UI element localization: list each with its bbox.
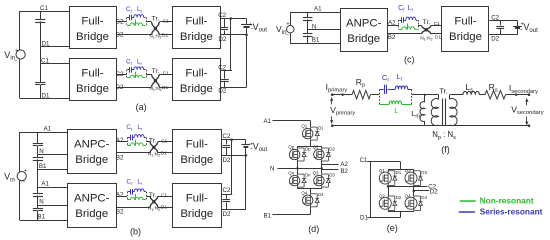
source Vin circle b xyxy=(17,172,26,181)
wire B2 lower c xyxy=(387,33,421,35)
svg-text:B1: B1 xyxy=(37,213,45,220)
svg-text:−: − xyxy=(250,146,254,152)
inductor L (non-resonant) xyxy=(127,25,130,27)
transformer Tr c xyxy=(422,26,431,34)
svg-text:D2: D2 xyxy=(218,88,226,95)
wire drain feed bar e xyxy=(388,169,414,171)
block Full-Bridge c right xyxy=(442,7,489,52)
svg-text:Dp: Dp xyxy=(305,146,311,151)
wire B1 d xyxy=(273,214,311,216)
secondary terminal dot top xyxy=(528,93,531,96)
svg-text:Full-: Full- xyxy=(454,16,476,28)
capacitor C1 upper (a) xyxy=(35,19,45,21)
svg-text:Series-resonant: Series-resonant xyxy=(480,206,543,216)
legend line series-resonant xyxy=(459,211,475,213)
svg-text:(f): (f) xyxy=(441,144,450,154)
wire primary top 3 xyxy=(412,94,439,96)
capacitor output xyxy=(226,140,228,145)
svg-text:Bridge: Bridge xyxy=(76,31,109,43)
transistor Q1 e xyxy=(379,172,391,184)
wire tank to transformer xyxy=(146,196,150,198)
block ANPC-Bridge c xyxy=(341,9,388,52)
svg-text:Q2: Q2 xyxy=(379,193,385,198)
transistor Q3 d xyxy=(314,175,324,185)
svg-text:B2: B2 xyxy=(116,154,124,161)
wire bottom rail a xyxy=(20,98,69,100)
node right tank junction xyxy=(146,138,148,146)
capacitor Cr (series-resonant) xyxy=(128,191,131,193)
inductor Lr (series-resonant) xyxy=(132,191,134,193)
wire bottom rail f xyxy=(332,125,529,127)
wire lower interconnect xyxy=(116,152,149,154)
wire output bottom xyxy=(222,209,233,211)
svg-text:B2: B2 xyxy=(388,34,396,41)
capacitor input c lower xyxy=(303,33,312,35)
svg-text:Q2: Q2 xyxy=(313,145,319,150)
svg-text:Q4: Q4 xyxy=(301,190,307,195)
wire output bottom xyxy=(220,87,232,89)
svg-text:+: + xyxy=(24,168,27,174)
wire tank to transformer c xyxy=(418,25,421,27)
svg-text:Bridge: Bridge xyxy=(75,208,108,220)
svg-text:A1: A1 xyxy=(41,181,49,188)
wire C1 to right box xyxy=(159,74,172,76)
node right tank junction xyxy=(146,70,148,78)
svg-text:Bridge: Bridge xyxy=(76,83,109,95)
transformer Tr small xyxy=(150,142,158,153)
wire Q4 to B1 d xyxy=(310,207,312,215)
arrow Isecondary xyxy=(508,94,519,96)
tank f right node xyxy=(411,89,413,104)
wire rail D1 upper (a) xyxy=(40,46,69,48)
wire A2 to tank c xyxy=(387,25,398,27)
transformer Tr small xyxy=(150,196,158,207)
wire parallel link C2-C2 b xyxy=(231,140,233,194)
junction dot a C2 xyxy=(230,17,233,20)
wire D1 to right box xyxy=(158,207,172,209)
wire output bottom xyxy=(222,155,246,157)
capacitor Cr (series-resonant) xyxy=(127,17,130,19)
svg-text:C1: C1 xyxy=(434,21,440,27)
svg-text:Bridge: Bridge xyxy=(180,154,213,166)
wire rail B1 c xyxy=(290,43,340,45)
svg-text:(e): (e) xyxy=(387,223,398,233)
svg-text:D1: D1 xyxy=(161,150,167,156)
svg-text:ANPC-: ANPC- xyxy=(74,138,110,150)
wire mid rail bottom d xyxy=(297,187,299,188)
svg-text:D2: D2 xyxy=(396,195,402,200)
svg-text:Bridge: Bridge xyxy=(449,31,482,43)
wire source feed bar e xyxy=(388,211,414,213)
wire A2 out d xyxy=(322,164,339,166)
svg-text:D3: D3 xyxy=(329,172,335,177)
wire top rail e xyxy=(371,161,401,163)
junction dot N-Qp d xyxy=(296,167,298,169)
svg-text:A2: A2 xyxy=(116,191,124,198)
arrow Vprimary up xyxy=(331,98,333,105)
resistor Rs xyxy=(485,91,506,99)
wire C1 to right box c xyxy=(431,25,442,27)
wire Q2 to A2 d xyxy=(321,161,323,174)
inductor Lr f xyxy=(388,89,396,91)
wire D1 to right box xyxy=(158,152,172,154)
wire mid rail top d xyxy=(297,146,321,148)
wire to tank xyxy=(116,196,127,198)
wire secondary top 2 xyxy=(479,94,485,96)
wire to tank xyxy=(116,74,127,76)
svg-text:Q1: Q1 xyxy=(379,168,385,173)
svg-text:D2: D2 xyxy=(223,157,231,164)
transistor Q1 d xyxy=(303,128,313,138)
block Full-Bridge b1 right xyxy=(173,130,222,174)
svg-text:(a): (a) xyxy=(136,102,147,112)
svg-text:(b): (b) xyxy=(130,226,141,236)
svg-text:Bridge: Bridge xyxy=(75,154,108,166)
wire secondary top 1 xyxy=(450,94,463,96)
wire D1 to right box xyxy=(159,34,172,36)
wire N row d xyxy=(278,168,322,170)
junction dot b D2 xyxy=(245,154,248,157)
wire input bus a xyxy=(40,11,42,98)
svg-text:Full-: Full- xyxy=(185,68,207,80)
svg-text:D3: D3 xyxy=(421,170,427,175)
svg-text:Q3: Q3 xyxy=(405,168,411,173)
svg-text:Tr.: Tr. xyxy=(439,87,448,96)
svg-text:−: − xyxy=(22,180,25,186)
block ANPC-Bridge b1 xyxy=(68,130,117,174)
battery Vout a xyxy=(246,19,248,25)
resistor Rp xyxy=(352,91,371,99)
wire output top xyxy=(222,194,233,196)
capacitor input b2 upper xyxy=(33,193,43,195)
capacitor input b1 upper xyxy=(33,143,43,145)
wire parallel link C2-C2 a xyxy=(230,19,232,71)
svg-text:Tr.: Tr. xyxy=(423,19,431,26)
svg-text:B1: B1 xyxy=(312,37,320,44)
wire Q4 to source bar e xyxy=(413,211,415,212)
wire input bus c xyxy=(307,12,309,43)
wire rail N b2 xyxy=(38,205,67,207)
wire tank to transformer xyxy=(146,74,151,76)
capacitor Cr (series-resonant) xyxy=(127,69,130,71)
transistor Qp d xyxy=(289,149,299,159)
wire D1 to right box c xyxy=(431,33,442,35)
arrow Iprimary xyxy=(335,94,346,96)
svg-text:Tr.: Tr. xyxy=(149,192,157,199)
wire output bottom c xyxy=(489,34,517,36)
capacitor input b1 lower xyxy=(33,157,43,159)
svg-text:C2: C2 xyxy=(223,133,231,140)
wire rail C1 lower (a) xyxy=(40,63,69,65)
junction dot b C2 xyxy=(230,139,233,142)
primary terminal dot bottom xyxy=(331,124,334,127)
wire into Q3 e xyxy=(413,169,415,171)
secondary terminal dot bottom xyxy=(528,124,531,127)
wire secondary top 3 xyxy=(506,94,529,96)
block Full-Bridge a1 left xyxy=(70,7,117,49)
svg-text:D1: D1 xyxy=(435,34,441,40)
svg-text:(d): (d) xyxy=(308,224,319,234)
wire Q2 to source bar e xyxy=(388,211,390,212)
wire to tank xyxy=(116,141,127,143)
node right tank junction xyxy=(146,18,148,26)
arrow Vsecondary down xyxy=(526,117,528,125)
inductor Lm xyxy=(424,95,426,102)
wire output top xyxy=(220,70,232,72)
svg-text:Tr.: Tr. xyxy=(149,138,157,145)
wire output top xyxy=(220,18,246,20)
wire rail A1 b2 xyxy=(38,187,67,189)
svg-text:B1: B1 xyxy=(264,213,272,220)
wire to Q4 d xyxy=(310,189,312,194)
svg-text:Q1: Q1 xyxy=(301,124,307,129)
wire C1 to right box xyxy=(158,141,172,143)
svg-text:Full-: Full- xyxy=(186,138,208,150)
wire into Q1 e xyxy=(388,169,390,171)
junction dot C2 e xyxy=(387,185,390,188)
transistor Q3 e xyxy=(405,172,417,184)
svg-text:Dn: Dn xyxy=(305,172,311,177)
capacitor input b2 lower xyxy=(33,208,43,210)
transistor Q2 d xyxy=(314,149,324,159)
node left tank junction xyxy=(126,70,128,78)
wire lower interconnect xyxy=(116,34,151,36)
wire top center drop e xyxy=(400,162,402,170)
block Full-Bridge a2 right xyxy=(173,59,221,101)
svg-text:D1: D1 xyxy=(360,214,368,221)
wire Vin vertical b xyxy=(19,132,21,220)
wire tank to transformer xyxy=(146,21,151,23)
wire input bus b xyxy=(37,132,39,220)
svg-text:D2: D2 xyxy=(329,146,335,151)
svg-text:Bridge: Bridge xyxy=(180,83,213,95)
transformer Tr small xyxy=(151,22,159,35)
svg-text:A1: A1 xyxy=(264,118,272,125)
capacitor output xyxy=(224,19,226,28)
wire top rail a xyxy=(20,11,69,13)
block ANPC-Bridge b2 xyxy=(68,184,117,228)
wire output top c xyxy=(489,20,517,22)
wire rail A1 b1 xyxy=(20,132,67,134)
svg-text:+: + xyxy=(286,21,289,27)
wire C1 stub e xyxy=(367,161,371,163)
svg-text:Q3: Q3 xyxy=(313,171,319,176)
wire D1 to right box xyxy=(159,87,172,89)
transformer Tr f secondary coil xyxy=(449,95,451,100)
node left tank junction xyxy=(127,192,129,200)
source Vin circle c xyxy=(287,26,294,33)
svg-text:Full-: Full- xyxy=(185,15,207,27)
wire Qn top d xyxy=(297,168,299,174)
svg-text:+: + xyxy=(15,48,18,54)
svg-text:Bridge: Bridge xyxy=(180,208,213,220)
svg-text:D4: D4 xyxy=(421,195,427,200)
transistor Q2 e xyxy=(379,197,391,209)
svg-text:B2: B2 xyxy=(340,168,348,175)
wire a row2 bottom to join xyxy=(232,87,247,89)
svg-text:L: L xyxy=(394,106,398,115)
junction dot a D2 xyxy=(245,34,248,37)
wire tank to transformer xyxy=(146,141,150,143)
svg-text:D1: D1 xyxy=(162,33,168,39)
inductor L (non-resonant) xyxy=(128,199,131,201)
wire C1 to right box xyxy=(159,21,172,23)
wire bottom center drop e xyxy=(400,212,402,218)
wire Vin vertical xyxy=(19,11,21,98)
svg-text:D1: D1 xyxy=(396,170,402,175)
wire output bottom xyxy=(220,34,246,36)
capacitor Cr (series-resonant) xyxy=(399,20,402,22)
junction dot N-Q2 d xyxy=(321,167,323,169)
inductor Lr (series-resonant) xyxy=(404,20,406,22)
source Vin circle xyxy=(16,50,25,59)
svg-text:Q4: Q4 xyxy=(405,193,411,198)
inductor Lr (series-resonant) xyxy=(132,69,134,71)
node left tank junction xyxy=(126,18,128,26)
transistor Qn d xyxy=(289,175,299,185)
transistor Q4 d xyxy=(303,195,313,205)
svg-text:ANPC-: ANPC- xyxy=(74,193,110,205)
svg-text:Bridge: Bridge xyxy=(180,31,213,43)
svg-text:N: N xyxy=(270,166,274,173)
svg-text:D2: D2 xyxy=(218,36,226,43)
block Full-Bridge a2 left xyxy=(70,59,117,101)
junction dot D2 e xyxy=(413,190,416,193)
svg-text:A2: A2 xyxy=(116,137,124,144)
capacitor output xyxy=(224,71,226,79)
capacitor input c upper xyxy=(303,17,312,19)
svg-text:Full-: Full- xyxy=(81,68,103,80)
svg-text:A1: A1 xyxy=(44,125,52,132)
wire A1 d xyxy=(273,120,311,122)
section (f) primary terminal xyxy=(331,93,334,96)
wire rail B1 b1 xyxy=(38,169,67,171)
wire lower interconnect xyxy=(116,87,151,89)
battery Vout c xyxy=(517,21,519,26)
wire to tank xyxy=(116,21,127,23)
node left tank junction xyxy=(398,20,400,30)
transformer Tr f core xyxy=(442,99,444,126)
wire Qp to N row xyxy=(297,161,299,168)
svg-text:C1: C1 xyxy=(360,157,368,164)
wire Q3-Q4 leg e xyxy=(413,185,415,196)
wire C2 out e xyxy=(388,186,427,188)
inductor Lr (series-resonant) xyxy=(132,17,134,19)
wire Q1 to mid rail d xyxy=(310,140,312,146)
svg-text:(c): (c) xyxy=(404,54,415,64)
wire Q1-Q2 leg e xyxy=(388,185,390,196)
svg-text:Tr.: Tr. xyxy=(152,16,160,23)
block Full-Bridge a1 right xyxy=(173,7,221,49)
svg-text:ANPC-: ANPC- xyxy=(346,17,382,29)
svg-text:B2: B2 xyxy=(116,209,124,216)
wire output top xyxy=(222,139,246,141)
svg-text:N: N xyxy=(39,198,43,205)
wire lower interconnect xyxy=(116,207,149,209)
inductor L (non-resonant) xyxy=(128,145,131,147)
wire B2 out d xyxy=(322,169,339,171)
inductor L f non-resonant xyxy=(379,104,389,106)
capacitor Cr f xyxy=(379,89,383,91)
svg-text:D1: D1 xyxy=(318,125,324,130)
svg-text:Tr.: Tr. xyxy=(152,68,160,75)
svg-text:D2: D2 xyxy=(116,32,124,39)
wire primary top 1 xyxy=(332,94,352,96)
svg-text:Qp: Qp xyxy=(288,145,294,150)
wire b row2 bottom to join xyxy=(232,209,246,211)
wire D1 stub e xyxy=(367,217,371,219)
svg-text:Bridge: Bridge xyxy=(347,33,380,45)
wire primary top 2 xyxy=(371,94,380,96)
capacitor output xyxy=(226,194,228,199)
svg-text:Full-: Full- xyxy=(186,193,208,205)
inductor L (non-resonant) xyxy=(399,29,402,31)
svg-text:−: − xyxy=(14,58,17,64)
capacitor output c xyxy=(500,21,502,26)
junction dot Lm top xyxy=(424,94,426,96)
wire rail N c xyxy=(308,29,340,31)
svg-text:Full-: Full- xyxy=(81,15,103,27)
transistor Q4 e xyxy=(405,197,417,209)
svg-text:−: − xyxy=(286,33,289,39)
transformer Tr small xyxy=(151,74,159,87)
inductor L (non-resonant) xyxy=(127,77,130,79)
wire Vin vertical c xyxy=(290,12,292,43)
wire bottom rail b xyxy=(20,220,67,222)
wire left bus e xyxy=(370,162,372,218)
capacitor C1 lower (a) xyxy=(35,82,45,84)
capacitor Cr (series-resonant) xyxy=(128,137,131,139)
svg-text:C1: C1 xyxy=(40,5,48,12)
transformer Tr f primary coil xyxy=(438,95,440,100)
wire rail N b1 xyxy=(38,154,67,156)
svg-text:C1: C1 xyxy=(161,193,167,199)
wire rail A1 c xyxy=(290,12,340,14)
wire bottom rail e xyxy=(371,217,401,219)
svg-text:C1: C1 xyxy=(163,71,169,77)
node left tank junction xyxy=(127,138,129,146)
svg-text:D2: D2 xyxy=(223,211,231,218)
svg-text:A1: A1 xyxy=(314,5,322,12)
legend line non-resonant xyxy=(460,200,476,202)
svg-text:D4: D4 xyxy=(318,192,324,197)
svg-text:Qn: Qn xyxy=(288,171,294,176)
tank f left node xyxy=(379,89,381,104)
inductor Ls xyxy=(463,91,479,94)
arrow Vsecondary up xyxy=(526,99,528,106)
svg-text:A2: A2 xyxy=(340,161,348,168)
wire C1 to right box xyxy=(158,196,172,198)
inductor Lr (series-resonant) xyxy=(132,137,134,139)
node right tank junction xyxy=(418,20,420,30)
block Full-Bridge b2 right xyxy=(173,184,222,228)
wire parallel link D2-D2 b xyxy=(245,155,247,210)
svg-text:D2: D2 xyxy=(491,36,499,43)
arrow Vprimary down xyxy=(331,117,333,124)
svg-text:Non-resonant: Non-resonant xyxy=(480,196,534,206)
svg-text:C2: C2 xyxy=(223,187,231,194)
svg-text:D2: D2 xyxy=(430,189,438,196)
wire parallel link D2-D2 a xyxy=(246,35,248,87)
node right tank junction xyxy=(146,192,148,200)
battery Vout b xyxy=(245,140,247,145)
wire D2 out e xyxy=(414,190,429,192)
